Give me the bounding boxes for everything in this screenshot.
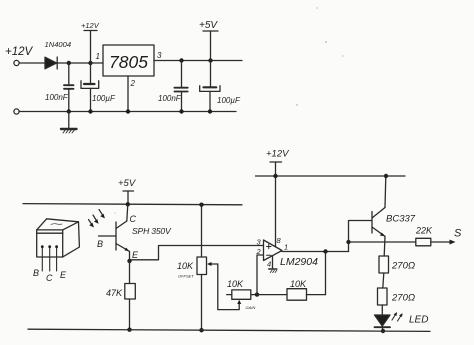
node +5V: [208, 58, 212, 62]
wire +12V rail to pin 8: [275, 176, 277, 246]
node C1 ground: [67, 109, 71, 113]
svg-text:7805: 7805: [109, 52, 148, 72]
svg-text:E: E: [132, 250, 139, 260]
wire op-amp output: [282, 251, 349, 253]
wire offset wiper to gain pot: [218, 264, 241, 310]
paper specks: [115, 7, 344, 213]
node after diode: [67, 61, 71, 65]
node 7805 ground: [126, 109, 130, 113]
svg-text:1N4004: 1N4004: [45, 40, 72, 49]
LED emission arrows: [392, 312, 403, 321]
node LED ground: [381, 329, 385, 333]
node inverting input junction: [255, 292, 259, 296]
phototransistor Q1 SFH350V: [99, 204, 130, 261]
svg-text:OFFSET: OFFSET: [178, 274, 194, 279]
capacitor C1 100nF: [64, 63, 74, 112]
svg-text:1: 1: [284, 243, 288, 252]
svg-text:+12V: +12V: [81, 21, 100, 30]
svg-text:LED: LED: [409, 315, 428, 326]
resistor R4 270: [379, 256, 389, 288]
power +5V bar: [203, 30, 218, 32]
svg-text:100nF: 100nF: [158, 94, 182, 103]
node phototransistor collector rail: [126, 202, 130, 206]
svg-text:100µF: 100µF: [92, 94, 116, 103]
node base junction: [346, 240, 350, 244]
regulator U1 7805: [103, 45, 154, 76]
svg-text:+5V: +5V: [199, 20, 218, 31]
svg-text:BC337: BC337: [386, 214, 416, 225]
ground op-amp pin 4: [269, 256, 277, 273]
diode D1 1N4004: [45, 57, 57, 69]
wire base junction to 22K: [349, 241, 416, 243]
svg-text:3: 3: [157, 51, 162, 60]
ground rail top section: [19, 111, 236, 113]
svg-text:+12V: +12V: [266, 149, 290, 160]
node 47K ground: [127, 328, 131, 332]
node emitter junction: [127, 259, 131, 263]
wire to +12V power bar: [90, 31, 92, 64]
resistor R1 47K: [125, 261, 136, 330]
power +12V bar: [84, 30, 97, 32]
wire output to base junction: [348, 242, 350, 252]
svg-text:SPH 350V: SPH 350V: [132, 226, 172, 236]
ground symbol: [61, 112, 77, 134]
wire input to diode: [19, 62, 45, 64]
ground rail bottom section: [28, 329, 430, 331]
resistor R2 10K feedback: [257, 289, 326, 301]
wire feedback down: [325, 252, 327, 295]
+12V rail bottom section: [256, 175, 406, 177]
power +12V bar bottom: [270, 161, 282, 163]
capacitor C4 100uF electrolytic: [200, 61, 220, 112]
node op-amp supply rail: [273, 174, 277, 178]
svg-text:+5V: +5V: [118, 178, 137, 189]
wire diode to input node: [57, 62, 90, 64]
potentiometer P1 10K offset: [197, 205, 218, 331]
node output feedback: [323, 249, 327, 253]
wire 7805 ground pin 2: [127, 76, 129, 112]
light arrows: [89, 210, 105, 228]
power +5V bar bottom: [123, 190, 134, 192]
svg-text:10K: 10K: [177, 261, 194, 271]
package drawing SFH350: [37, 219, 80, 271]
op-amp U2 LM2904: [264, 240, 283, 261]
wire node to 7805 pin 1: [91, 62, 104, 64]
transistor Q2 BC337: [372, 208, 385, 257]
svg-text:8: 8: [277, 236, 282, 245]
svg-text:100nF: 100nF: [45, 93, 69, 102]
node offset pot top: [199, 203, 203, 207]
potentiometer P2 10K gain: [227, 290, 257, 299]
svg-text:10K: 10K: [227, 279, 244, 289]
svg-text:GAIN: GAIN: [246, 305, 256, 310]
wire junction to pin 2: [257, 255, 264, 295]
wire +5V bar to rail: [127, 191, 129, 204]
svg-text:100µF: 100µF: [217, 96, 241, 105]
svg-text:2: 2: [256, 247, 262, 256]
node C3 ground: [179, 109, 183, 113]
wire to +5V power bar: [210, 31, 212, 61]
svg-text:E: E: [60, 270, 67, 280]
node regulator input: [88, 61, 92, 65]
svg-text:22K: 22K: [415, 226, 433, 236]
resistor R3 22K: [416, 238, 456, 246]
svg-text:LM2904: LM2904: [280, 256, 318, 268]
wire collector to +12V rail: [384, 176, 387, 208]
svg-text:4: 4: [267, 260, 271, 269]
node C4 ground: [208, 109, 212, 113]
svg-text:1: 1: [96, 52, 100, 61]
terminal +12V input: [14, 60, 19, 65]
svg-text:2: 2: [130, 79, 136, 88]
terminal 0V input: [14, 109, 19, 114]
node offset pot ground: [199, 328, 203, 332]
+5V rail bottom section: [23, 204, 242, 205]
svg-text:C: C: [130, 214, 137, 224]
svg-text:47K: 47K: [106, 288, 123, 298]
svg-text:270Ω: 270Ω: [391, 261, 415, 272]
wire 7805 output: [154, 60, 242, 62]
node output cap: [179, 58, 183, 62]
svg-text:B: B: [33, 268, 39, 278]
svg-text:+12V: +12V: [5, 46, 34, 58]
svg-text:270Ω: 270Ω: [391, 293, 415, 304]
resistor R5 270: [378, 288, 388, 315]
svg-text:10K: 10K: [290, 279, 307, 289]
svg-text:B: B: [97, 239, 103, 249]
wire +12V bar to rail: [275, 162, 277, 176]
capacitor C2 100uF electrolytic: [81, 63, 99, 112]
capacitor C3 100nF: [174, 61, 187, 112]
wire base: [349, 221, 373, 243]
node collector rail: [384, 174, 388, 178]
LED D2: [375, 315, 391, 331]
svg-text:C: C: [46, 273, 53, 283]
svg-text:S: S: [454, 228, 462, 240]
node C2 ground: [88, 109, 92, 113]
wire emitter to op-amp non-inverting input: [130, 246, 264, 260]
